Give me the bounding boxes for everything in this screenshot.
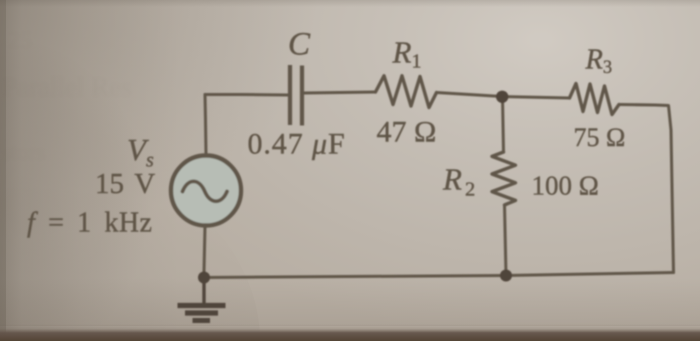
resistor R2 — [492, 152, 516, 205]
wire: source bottom to ground node — [204, 226, 205, 272]
sine symbol inside source — [183, 181, 228, 201]
svg-text:100 Ω: 100 Ω — [532, 171, 599, 201]
wire: node A down to R2 — [503, 97, 504, 153]
capacitor C — [290, 65, 302, 126]
wire: R2 to node B — [505, 205, 507, 276]
svg-text:47 Ω: 47 Ω — [377, 116, 437, 149]
voltage source Vs (AC source) — [171, 156, 241, 226]
node B (junction of R2 bottom and bottom wire) — [500, 270, 512, 282]
wire: R3 to top-right corner and down right side — [619, 105, 674, 273]
ghost bleed-through text — [2, 28, 132, 165]
svg-text:0.47 μF: 0.47 μF — [248, 128, 346, 161]
svg-text:Parallel Res: Parallel Res — [2, 72, 132, 102]
node A (junction of R1, R3, R2) — [496, 91, 508, 103]
svg-text:C: C — [288, 27, 311, 63]
svg-text:15 V: 15 V — [95, 168, 155, 200]
svg-text:f = 1 kHz: f = 1 kHz — [27, 208, 152, 239]
wire: bottom-right corner to node B — [506, 273, 674, 276]
svg-text:75 Ω: 75 Ω — [574, 123, 626, 152]
resistor R1 — [376, 76, 437, 108]
svg-text:stors: stors — [2, 140, 46, 165]
wire: R1 to node A — [437, 93, 503, 97]
node: ground junction — [198, 272, 210, 284]
wire: top-left corner down to source top — [205, 95, 206, 156]
wire: node A to R3 — [502, 97, 570, 99]
svg-text:25: 25 — [8, 28, 32, 54]
ground symbol — [178, 278, 226, 321]
wire: capacitor right plate to R1 — [304, 92, 376, 93]
resistor R3 — [570, 84, 620, 115]
wire: top-left corner to capacitor left plate — [205, 93, 288, 97]
wire: node B to ground node — [204, 276, 506, 278]
